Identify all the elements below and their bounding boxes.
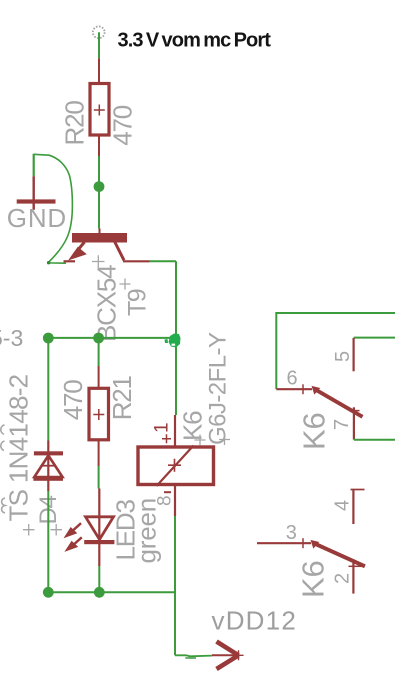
- pin circle (3.3V supply pin): [93, 26, 105, 38]
- left-edge label fragment c: [2, 498, 5, 513]
- wire K6 pin8 to bottom (green): [174, 516, 176, 655]
- pin 2 stub (red): [352, 560, 354, 594]
- svg-text:T9: T9: [124, 289, 152, 316]
- left-edge label fragment b: [1, 441, 5, 451]
- pin 8 tick (red): [164, 491, 171, 493]
- wire base rail horizontal (green): [48, 337, 172, 339]
- svg-text:K6: K6: [178, 411, 208, 441]
- wire T9 collector to right rail (green): [150, 260, 177, 262]
- junction dot bottom mid: [94, 587, 105, 598]
- wire right rail vertical (green): [175, 261, 177, 415]
- bottom rail horizontal (green): [48, 591, 176, 593]
- wire to vDD12 flag (green, hand-drawn): [175, 655, 212, 656]
- wire pin to R20 (green segment): [98, 32, 100, 58]
- svg-text:GND: GND: [7, 203, 67, 233]
- pin 5 stub (red): [353, 338, 355, 371]
- wire junction to T9 base (green): [98, 191, 100, 229]
- wire D4 to bottom rail (green): [47, 491, 49, 588]
- wire jag tick (green): [185, 657, 196, 659]
- wire end dot (freeform): [47, 261, 50, 264]
- origin cross K6 coil label: [195, 435, 206, 446]
- junction dot bottom left: [43, 587, 54, 598]
- wire pin to R20 (red pin segment): [98, 58, 100, 83]
- wire pin6 up and right (green): [276, 313, 395, 389]
- origin cross D4 right: [51, 524, 63, 536]
- junction dot rail mid: [93, 333, 104, 344]
- svg-text:G6J-2FL-Y: G6J-2FL-Y: [205, 332, 232, 445]
- pin 3 stub (red): [257, 542, 311, 544]
- relay coil K6: [138, 415, 214, 516]
- net flag vDD12 (arrow): [212, 642, 244, 670]
- origin cross BCX54 label: [92, 255, 105, 267]
- pin 3 cross tick: [302, 538, 304, 548]
- contact arm (top K6): [312, 386, 363, 417]
- svg-text:4: 4: [332, 500, 354, 511]
- contact arm (bottom K6): [311, 540, 365, 566]
- wire R20 to junction (red pin segment): [98, 135, 100, 156]
- svg-text:8: 8: [155, 495, 176, 506]
- pin 4 tick (red): [351, 489, 365, 491]
- svg-text:TS 1N4148-2: TS 1N4148-2: [4, 374, 34, 521]
- svg-text:K6: K6: [296, 560, 331, 598]
- origin cross G6J label: [219, 434, 230, 445]
- wire pin7 right (green): [354, 439, 395, 441]
- svg-text:R21: R21: [107, 375, 137, 420]
- wire R20 to junction (green): [98, 156, 100, 182]
- junction blob right rail: [165, 334, 181, 348]
- svg-text:vDD12: vDD12: [212, 605, 297, 635]
- junction dot rail left: [43, 333, 54, 344]
- wire junction to R21 (green): [98, 343, 100, 366]
- wire R21 to LED3 (green): [98, 466, 100, 489]
- svg-text:3.3 V vom mc Port: 3.3 V vom mc Port: [118, 30, 272, 52]
- wire R21 to LED3 (red pin): [98, 440, 100, 466]
- svg-text:1: 1: [152, 422, 173, 433]
- pin 1 cross (red): [162, 434, 171, 443]
- svg-text:5: 5: [332, 351, 354, 362]
- wire pin5 right (green): [354, 337, 395, 339]
- wire T9 base pin (red): [99, 229, 101, 235]
- diode D4: [33, 441, 63, 492]
- resistor R21: [89, 388, 109, 440]
- pin 6 cross tick: [302, 384, 304, 394]
- svg-text:K6: K6: [297, 412, 332, 450]
- wire junction to D4 (green): [47, 343, 49, 441]
- svg-text:2: 2: [332, 573, 354, 584]
- pin 7 stub (red): [353, 407, 355, 439]
- origin cross D4 left: [23, 524, 35, 536]
- ground GND: [17, 154, 56, 210]
- wire LED3 to bottom rail (green): [98, 566, 100, 588]
- svg-text:3: 3: [286, 522, 297, 544]
- svg-text:470: 470: [108, 105, 138, 146]
- pin 2 cross tick: [349, 565, 363, 567]
- resistor R20: [90, 84, 109, 136]
- pin 6 stub (red): [276, 388, 312, 390]
- junction dot at base node: [94, 181, 105, 192]
- LED LED3: [64, 517, 115, 566]
- left-edge label fragment a: [1, 425, 5, 435]
- pin 7 cross tick: [349, 410, 360, 412]
- svg-text:470: 470: [58, 380, 88, 421]
- wire GND to T9 emitter (freeform green): [34, 154, 73, 263]
- svg-text:BCX54: BCX54: [92, 265, 122, 342]
- svg-text:6: 6: [287, 368, 298, 390]
- svg-text:green: green: [132, 498, 162, 564]
- transistor T9 (BCX54): [64, 233, 150, 261]
- svg-text:7: 7: [331, 419, 353, 430]
- pin 4 stub (red): [352, 490, 354, 524]
- svg-text:5-3: 5-3: [0, 325, 23, 351]
- svg-text:R20: R20: [60, 101, 90, 146]
- wire R21 top pin (red): [98, 366, 100, 389]
- origin cross T9 label: [120, 279, 131, 290]
- wire LED3 top pin (red): [98, 489, 100, 518]
